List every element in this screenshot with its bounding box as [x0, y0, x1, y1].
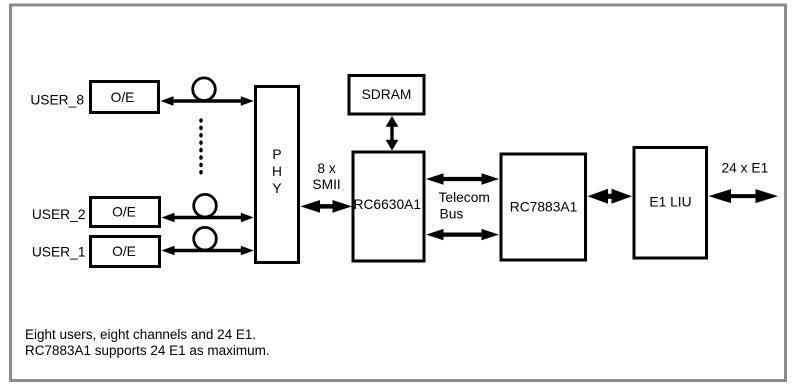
net label Telecom Bus [439, 190, 490, 221]
ellipsis dotted line between user channels [199, 118, 203, 174]
svg-text:8 x: 8 x [317, 161, 336, 176]
caption line 2 [25, 343, 270, 358]
block O/E (USER_2) [91, 198, 160, 227]
svg-text:Y: Y [272, 181, 281, 196]
net label 24 x E1 [722, 161, 769, 176]
block SDRAM [349, 76, 424, 115]
wire arrow O/E USER_8 to PHY [161, 96, 254, 106]
svg-text:Telecom: Telecom [439, 190, 490, 205]
svg-text:Eight users, eight channels an: Eight users, eight channels and 24 E1. [25, 327, 256, 342]
block E1 LIU [634, 148, 707, 259]
svg-text:USER_2: USER_2 [32, 207, 86, 222]
svg-text:24 x E1: 24 x E1 [722, 161, 769, 176]
svg-text:O/E: O/E [112, 205, 136, 220]
svg-text:RC7883A1 supports 24 E1 as max: RC7883A1 supports 24 E1 as maximum. [25, 343, 270, 358]
node label USER_8 [30, 93, 84, 108]
svg-text:E1 LIU: E1 LIU [649, 195, 691, 210]
block RC6630A1 [353, 152, 424, 261]
svg-text:USER_1: USER_1 [32, 245, 86, 260]
wire arrow telecom bus upper [426, 173, 499, 184]
wire arrow PHY to RC6630A1 (8 x SMII bus) [301, 200, 353, 213]
block O/E (USER_1) [91, 237, 160, 267]
optical coupler circle USER_8 [193, 78, 216, 101]
svg-text:O/E: O/E [111, 90, 135, 105]
svg-text:H: H [272, 164, 282, 179]
optical coupler circle USER_1 [194, 227, 217, 250]
svg-text:SDRAM: SDRAM [362, 87, 412, 102]
svg-text:USER_8: USER_8 [30, 93, 84, 108]
block PHY [256, 87, 299, 263]
net label 8 x SMII [312, 161, 340, 192]
node label USER_2 [32, 207, 86, 222]
block O/E (USER_8) [91, 82, 159, 113]
svg-text:O/E: O/E [112, 244, 136, 259]
optical coupler circle USER_2 [194, 194, 217, 217]
svg-text:RC6630A1: RC6630A1 [354, 197, 422, 212]
wire arrow O/E USER_1 to PHY [162, 246, 254, 256]
wire arrow O/E USER_2 to PHY [162, 213, 254, 223]
svg-text:RC7883A1: RC7883A1 [510, 199, 578, 214]
svg-text:Bus: Bus [440, 206, 464, 221]
block RC7883A1 [501, 154, 586, 260]
caption line 1 [25, 327, 256, 342]
wire arrow SDRAM to RC6630A1 [386, 116, 399, 151]
wire arrow RC7883A1 to E1 LIU [588, 189, 633, 204]
wire arrow telecom bus lower [426, 229, 499, 240]
node label USER_1 [32, 245, 86, 260]
svg-text:SMII: SMII [312, 177, 340, 192]
svg-text:P: P [272, 147, 281, 162]
wire arrow E1 LIU external 24 x E1 [709, 189, 779, 203]
